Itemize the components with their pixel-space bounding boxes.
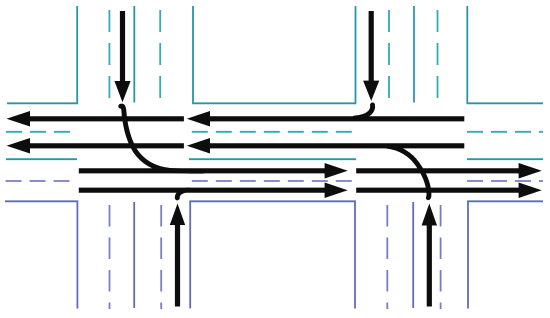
lane dashes lower (violet)	[6, 181, 544, 309]
eastbound lane1 east arrowhead	[519, 163, 542, 179]
northbound arrow right intersection shaft	[427, 226, 432, 307]
eastbound lane2 arrow (east segment) shaft	[356, 188, 519, 193]
west bottom edge + lower-left road left edge	[5, 201, 77, 308]
westbound lane2 west arrowhead	[7, 138, 31, 154]
westbound lane1 west arrowhead	[7, 111, 31, 127]
upper-left road lane dashes	[108, 10, 110, 98]
left-turn merge curve NB->WB lane2 (right intersection)	[387, 146, 429, 198]
west top edge + upper-left road left edge	[7, 6, 77, 103]
road edges (violet, lower half)	[5, 201, 543, 308]
westbound lane2 mid arrowhead	[187, 138, 210, 154]
lower-right road center line	[412, 202, 414, 308]
eastbound lane1 arrow (east segment) shaft	[356, 168, 519, 173]
right-turn merge hook NB->EB lane2 (left intersection)	[177, 190, 189, 198]
northbound arrow left intersection head	[170, 204, 185, 226]
southbound arrow left intersection head	[114, 81, 130, 102]
westbound lane2 arrow (west segment) shaft	[29, 143, 184, 148]
westbound lane1 arrow (east segment) shaft	[209, 116, 464, 121]
lane dashes upper (teal)	[6, 10, 543, 132]
eastbound lane2 arrow (west segment) shaft	[79, 188, 326, 193]
westbound lane1 arrow (west segment) shaft	[29, 116, 184, 121]
upper-left road center line	[133, 6, 135, 103]
right-turn merge hook SB->WB lane1 (right intersection)	[355, 105, 373, 118]
center line of arterial (west / middle / east)	[6, 158, 77, 160]
westbound lane2 arrow (east segment) shaft	[209, 143, 464, 148]
southbound arrow left intersection shaft	[120, 11, 125, 82]
southbound arrow right intersection shaft	[369, 11, 374, 82]
lower-left road center line	[133, 202, 135, 308]
westbound lane1 mid arrowhead	[187, 111, 210, 127]
lower-right road right edge + east bottom edge	[468, 201, 543, 308]
lower-left road right edge + middle bottom edge + lower-right road left edge	[190, 201, 355, 308]
eastbound lane1 mid arrowhead	[325, 163, 348, 179]
upper-right road lane dashes	[388, 10, 390, 98]
northbound arrow left intersection shaft	[175, 225, 180, 307]
left-turn merge curve SB->EB lane1 (left intersection)	[121, 106, 203, 171]
southbound arrow right intersection head	[363, 81, 379, 101]
lower-right road lane dashes	[386, 205, 388, 309]
westbound lane dash (west / middle / east)	[6, 131, 70, 133]
eastbound lane2 mid arrowhead	[325, 182, 348, 198]
road edges (teal, upper half)	[6, 6, 543, 159]
eastbound lane1 arrow (west segment) shaft	[79, 168, 326, 173]
upper-left road right edge + middle top edge + upper-right road left edge	[193, 6, 356, 103]
upper-right road center line	[413, 6, 415, 103]
northbound arrow right intersection head	[422, 204, 437, 226]
eastbound lane2 east arrowhead	[519, 182, 542, 198]
lower-left road lane dashes	[109, 205, 111, 309]
upper-right road right edge + east top edge	[467, 6, 543, 103]
eastbound lane dash (west / middle / east)	[6, 180, 72, 182]
